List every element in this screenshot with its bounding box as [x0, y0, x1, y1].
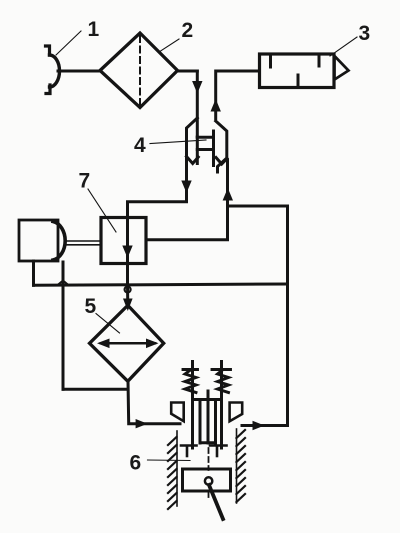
- motor box: [19, 220, 58, 261]
- engine valve stems: [193, 362, 222, 449]
- connecting rod: [209, 485, 223, 519]
- engine valve head left: [181, 446, 197, 457]
- wire right vertical: [286, 206, 289, 426]
- intake bellmouth 1: [46, 46, 60, 94]
- wire return manifold y285: [34, 284, 288, 285]
- compressor 7 internal pipe: [126, 218, 129, 285]
- arrow down inside compressor: [122, 246, 132, 259]
- coupler 4 left half: [187, 118, 199, 201]
- engine port left: [171, 403, 184, 422]
- arrow into throttle 5: [123, 299, 133, 312]
- junction loop at manifold: [125, 287, 131, 293]
- piston 6: [183, 469, 231, 491]
- throttle 5 diamond: [90, 305, 164, 381]
- label 1: [56, 18, 100, 55]
- label 5: [85, 295, 120, 333]
- wire throttle down to engine inlet: [128, 381, 180, 423]
- label 6: [130, 452, 191, 475]
- silencer 3 body: [260, 54, 349, 88]
- wire branch right at y206: [228, 205, 288, 208]
- compressor 7 box: [101, 218, 146, 264]
- label 7: [79, 170, 117, 233]
- wire bypass bottom y389: [63, 388, 128, 391]
- wire down from coupler to compressor 7: [128, 160, 187, 218]
- engine head chamber: [193, 400, 222, 444]
- wrist pin: [205, 477, 212, 484]
- wire compressor down to throttle: [126, 285, 129, 305]
- arrow engine inlet: [136, 419, 148, 428]
- engine port right: [230, 403, 243, 422]
- label 2: [159, 19, 193, 52]
- wire engine exhaust to right vertical: [242, 424, 288, 427]
- label 3: [330, 22, 370, 56]
- arrow up top: [211, 99, 221, 112]
- engine valve spring right: [212, 370, 231, 393]
- arrow down into compressor line: [181, 181, 191, 194]
- svg-text:1: 1: [88, 18, 100, 41]
- wire filter to down-branch: [178, 70, 198, 73]
- label 4: [134, 134, 206, 157]
- filter F2 diamond: [100, 33, 178, 108]
- coupler 4 center H: [197, 131, 213, 166]
- arrow up lower: [223, 188, 233, 201]
- cylinder wall left hatched: [168, 431, 177, 509]
- wire down branch into coupler 4: [196, 71, 199, 137]
- wire up from compressor right to coupler: [146, 160, 228, 240]
- motor D arc: [53, 222, 65, 261]
- wire intake to filter: [58, 70, 100, 73]
- wire up branch to silencer: [216, 71, 260, 119]
- svg-text:6: 6: [130, 452, 142, 475]
- arrow down top: [192, 81, 202, 94]
- svg-text:4: 4: [134, 134, 146, 157]
- svg-text:2: 2: [182, 19, 194, 42]
- svg-text:5: 5: [85, 295, 97, 318]
- shaft coupling lines: [66, 241, 101, 245]
- arrow engine exhaust: [253, 421, 265, 430]
- engine valve spring left: [183, 370, 198, 393]
- svg-text:3: 3: [359, 22, 371, 45]
- engine valve head right: [210, 446, 227, 457]
- coupler 4 right half: [216, 121, 227, 172]
- throttle 5 double arrow: [97, 339, 159, 349]
- cylinder wall right hatched: [237, 429, 246, 503]
- junction flare left: [59, 281, 68, 285]
- cylinder axis dashed: [208, 448, 210, 470]
- wire motor left drop: [32, 261, 35, 285]
- axis dash below piston: [208, 492, 210, 500]
- wire motor right drop to throttle feed: [62, 262, 65, 389]
